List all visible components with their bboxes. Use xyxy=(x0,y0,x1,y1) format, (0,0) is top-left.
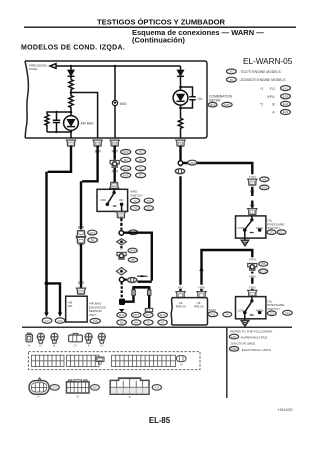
connector face K5 xyxy=(85,333,92,340)
horizontal divider xyxy=(22,326,292,328)
oil pressure switch ZD box xyxy=(236,297,266,319)
resistor R4 xyxy=(178,118,182,138)
node junction dot H xyxy=(179,86,182,89)
svg-text:Y/PU: Y/PU xyxy=(198,285,205,289)
svg-text:HIGH: HIGH xyxy=(256,308,263,312)
wire W1 air bag feed xyxy=(47,146,72,313)
wire W3 R/W xyxy=(113,146,115,182)
connector face L3 xyxy=(110,378,149,394)
arrow down W1 end xyxy=(44,313,48,318)
svg-text:ON: ON xyxy=(119,198,123,202)
SMJ pin box TD xyxy=(248,179,257,185)
connector code B2 xyxy=(88,238,98,243)
svg-text:MODELOS DE COND. IZQDA.: MODELOS DE COND. IZQDA. xyxy=(21,45,125,52)
oval grid row2 xyxy=(121,157,131,162)
arrow down chain end xyxy=(119,309,125,312)
dashed wire xyxy=(120,246,122,250)
svg-text:E28: E28 xyxy=(283,95,289,99)
connector code ZD xyxy=(267,311,276,316)
svg-text:HIGH: HIGH xyxy=(256,226,263,230)
node junction dot C xyxy=(70,91,73,94)
svg-text:JUNCTION (SMJ): JUNCTION (SMJ) xyxy=(230,342,255,346)
svg-text:T3: T3 xyxy=(133,206,137,210)
svg-text:SWITCH: SWITCH xyxy=(130,194,142,198)
connector code E11 xyxy=(277,230,286,235)
svg-text:F36: F36 xyxy=(58,319,63,323)
oval grid row4 xyxy=(121,173,131,178)
svg-text:F12: F12 xyxy=(285,311,290,315)
wire TD chain lower xyxy=(251,187,253,208)
svg-text:B8: B8 xyxy=(120,321,124,325)
contact LOW xyxy=(243,311,247,315)
svg-text:GY: GY xyxy=(37,394,41,398)
diamond connector 1 xyxy=(117,239,127,245)
4WD switch top pin box xyxy=(110,182,119,188)
connector face L1 oval type xyxy=(38,378,42,381)
svg-text:Y/PU: Y/PU xyxy=(249,274,256,278)
svg-text:F55: F55 xyxy=(210,312,215,316)
inline hatched connector oval xyxy=(128,278,137,283)
wire W1 branch xyxy=(47,283,61,312)
meter pin 3 (air bag) xyxy=(66,140,75,146)
contact ON xyxy=(120,203,124,207)
SMJ grid 1 xyxy=(32,355,65,366)
dash between contacts xyxy=(250,232,254,234)
svg-text:B: B xyxy=(88,344,90,348)
contact LOW xyxy=(243,228,247,232)
dashed wire below 4WD switch xyxy=(120,218,122,230)
svg-text:(Continuación): (Continuación) xyxy=(132,35,185,44)
right leg continues xyxy=(148,295,150,308)
svg-text:M77: M77 xyxy=(146,313,152,317)
wire left branch bottom xyxy=(47,131,71,133)
connector code Z16 xyxy=(90,319,100,324)
air bag unit pin box xyxy=(76,288,85,294)
svg-text:TESTIGOS ÓPTICOS Y ZUMBADOR: TESTIGOS ÓPTICOS Y ZUMBADOR xyxy=(97,18,225,27)
svg-text:SWITCH: SWITCH xyxy=(267,307,279,311)
oval grid row3 xyxy=(121,166,131,171)
LED air bag lamp xyxy=(64,116,79,131)
wire to ground xyxy=(244,313,246,321)
svg-text:LOW: LOW xyxy=(238,226,245,230)
LED oil lamp xyxy=(173,90,188,105)
direction arrow xyxy=(137,275,148,277)
node junction dot I xyxy=(179,107,182,110)
oil pressure switch ZD pin box xyxy=(248,290,257,296)
dash between contacts xyxy=(250,314,254,316)
oil pressure switch TD box xyxy=(236,216,266,238)
diode D1 xyxy=(68,70,75,76)
svg-text:M24: M24 xyxy=(210,103,216,107)
svg-text:TD: TD xyxy=(139,166,143,170)
svg-text:ZD: ZD xyxy=(270,312,274,316)
connector code E26 xyxy=(55,318,65,323)
svg-text:M4: M4 xyxy=(262,178,266,182)
capacitor C1 xyxy=(53,112,60,132)
connector face K3 xyxy=(51,333,58,340)
joint box right leg xyxy=(148,290,151,295)
svg-text:15: 15 xyxy=(96,142,100,146)
svg-text:F9: F9 xyxy=(226,313,230,317)
inline connector on ZD chain xyxy=(248,264,257,271)
hatched pin box right leg xyxy=(145,308,152,311)
switch contact top xyxy=(113,189,115,192)
svg-text:M25: M25 xyxy=(224,103,230,107)
vertical divider xyxy=(226,327,228,398)
ECM pin box Y/PU xyxy=(197,292,206,298)
svg-text:F55: F55 xyxy=(154,386,159,390)
connector face K4 xyxy=(69,335,83,342)
SMJ grid 3 xyxy=(112,355,176,366)
junction circle oil xyxy=(178,161,183,166)
svg-text:B: B xyxy=(54,344,56,348)
svg-text:17: 17 xyxy=(79,290,83,294)
thick wire 4WD branch right xyxy=(124,232,152,282)
connector code T3 xyxy=(130,206,139,211)
svg-text:TD: TD xyxy=(147,199,151,203)
wire ZD horizontal xyxy=(202,249,253,291)
svg-text:B/Y: B/Y xyxy=(250,204,255,208)
node junction dot A xyxy=(70,65,73,68)
svg-text:Y/PU: Y/PU xyxy=(249,258,256,262)
capacitor C2 parallel branch xyxy=(181,87,193,108)
svg-text:TD: TD xyxy=(270,230,274,234)
bottom code ovals grid xyxy=(117,312,126,317)
combination meter box outline xyxy=(25,61,207,138)
elec units oval xyxy=(229,347,238,352)
page arrow xyxy=(50,64,59,69)
svg-text:UNIT: UNIT xyxy=(89,313,96,317)
air bag diagnosis sensor unit box xyxy=(66,296,88,322)
node junction dot B xyxy=(114,65,117,68)
joint box left leg xyxy=(132,290,135,295)
wire top bus xyxy=(59,65,181,67)
contact HIGH xyxy=(258,228,262,232)
svg-text:B8: B8 xyxy=(131,258,135,262)
svg-text:B8: B8 xyxy=(93,386,97,390)
wire W2 B/W xyxy=(81,146,98,288)
svg-text:ZD: ZD xyxy=(139,174,143,178)
ground ZD switch xyxy=(241,321,248,327)
wire ON to bottom xyxy=(121,204,123,211)
ECM torn edge xyxy=(170,298,173,325)
svg-text:B/Y: B/Y xyxy=(250,189,255,193)
svg-text:M66: M66 xyxy=(119,313,125,317)
connector face K6 xyxy=(98,333,105,340)
arrow down W1 branch end xyxy=(58,313,62,318)
dash between contacts xyxy=(113,205,117,207)
svg-text:M2: M2 xyxy=(124,158,128,162)
resistor R1 xyxy=(69,80,73,93)
4WD switch box xyxy=(97,189,128,211)
legend oval ZD xyxy=(227,77,237,82)
svg-text:T2: T2 xyxy=(133,199,137,203)
connector code E210c xyxy=(223,312,232,317)
svg-text:H5160D: H5160D xyxy=(278,407,293,412)
svg-text:25: 25 xyxy=(113,142,117,146)
svg-text:B2: B2 xyxy=(91,238,95,242)
diode D2 xyxy=(177,70,184,76)
svg-text:F4: F4 xyxy=(161,321,165,325)
connector face L2 xyxy=(67,382,90,393)
ECM box xyxy=(172,298,208,325)
connector code F12 xyxy=(283,310,293,315)
svg-text:4WD: 4WD xyxy=(120,102,128,106)
svg-text:M33: M33 xyxy=(123,150,129,154)
meter pin 25 (R/W) xyxy=(110,140,119,146)
svg-text:E210: E210 xyxy=(260,270,267,274)
connector code M66 xyxy=(128,248,137,253)
svg-text:Y/PU: Y/PU xyxy=(249,285,256,289)
oil branch wire xyxy=(180,66,182,70)
svg-text:Y/PU: Y/PU xyxy=(249,175,256,179)
inline connector M72 on W2 xyxy=(76,231,85,237)
4WD switch bottom pin box xyxy=(116,212,125,218)
wire left branch top xyxy=(47,112,71,115)
inline connector mid chain xyxy=(117,252,126,259)
svg-text:M60: M60 xyxy=(123,166,129,170)
svg-text:R/W: R/W xyxy=(112,170,118,174)
connector code TD2 xyxy=(144,198,153,203)
diamond connector 2 xyxy=(116,268,126,275)
LED 4WD lamp xyxy=(112,100,117,105)
node junction dot D xyxy=(70,111,73,114)
contact OFF xyxy=(106,203,110,207)
meter pin 15 (B/W) xyxy=(93,140,102,146)
svg-text:EL-WARN-05: EL-WARN-05 xyxy=(243,57,293,66)
node junction dot F xyxy=(55,131,57,133)
4WD lamp wire xyxy=(114,66,116,138)
svg-text:F/J: F/J xyxy=(270,87,275,91)
resistor R2 xyxy=(69,93,73,113)
svg-text:B: B xyxy=(28,344,30,348)
oval grid row1 xyxy=(121,150,131,155)
wire W4 oil main xyxy=(179,146,181,291)
wire ZD chain lower xyxy=(251,272,253,291)
thick link square to U xyxy=(125,296,134,302)
svg-text:F47: F47 xyxy=(45,319,50,323)
svg-text:M79: M79 xyxy=(160,313,166,317)
wire branch to B/W pin xyxy=(71,93,98,139)
switch contact top xyxy=(251,216,253,220)
oval code L1 xyxy=(50,385,59,391)
node junction dot G xyxy=(70,131,72,133)
arrow up ZD wire xyxy=(199,265,203,271)
joint connector black square xyxy=(119,299,125,305)
junction circle 2 xyxy=(119,277,124,282)
svg-text:EL-85: EL-85 xyxy=(149,416,171,425)
small connector face mid strip xyxy=(96,357,104,362)
svg-text:F2: F2 xyxy=(147,321,151,325)
svg-text:B/W: B/W xyxy=(78,281,84,285)
svg-text:M66: M66 xyxy=(130,249,136,253)
svg-text:M53: M53 xyxy=(189,161,195,165)
svg-text:E41: E41 xyxy=(283,86,289,90)
connector face K1 xyxy=(26,335,32,342)
svg-text:B/W: B/W xyxy=(78,243,84,247)
dashed wire below circle2 xyxy=(121,282,123,298)
connector code M53 xyxy=(188,160,197,165)
svg-text:E42: E42 xyxy=(283,102,289,106)
meter pin 29 (oil) xyxy=(176,140,185,146)
splice dot W1 xyxy=(45,281,49,285)
svg-text:,: , xyxy=(218,104,219,108)
node junction dot E xyxy=(55,111,57,113)
svg-text:: TD27Ti ENGINE MODELS: : TD27Ti ENGINE MODELS xyxy=(239,70,282,74)
connector code E210b xyxy=(259,269,268,274)
svg-text:M31: M31 xyxy=(231,335,237,339)
svg-text:ZD: ZD xyxy=(147,206,151,210)
svg-text:*1: *1 xyxy=(260,87,263,91)
oil pressure switch TD pin box xyxy=(248,209,257,215)
wire to ground xyxy=(244,230,246,240)
wire xyxy=(70,66,72,70)
inline connector M2 on W3 xyxy=(110,161,119,168)
ground TD switch xyxy=(241,240,248,246)
svg-text:M33: M33 xyxy=(231,347,237,351)
svg-text:Z16: Z16 xyxy=(52,386,57,390)
svg-text:PU: PU xyxy=(178,285,182,289)
ECM pin box PU xyxy=(176,292,185,298)
switch lever xyxy=(245,302,251,311)
svg-text:PRE.SS: PRE.SS xyxy=(194,304,204,308)
svg-text:M75: M75 xyxy=(133,313,139,317)
junction circle 4WD xyxy=(119,231,124,236)
svg-text:29: 29 xyxy=(179,142,183,146)
svg-text:W/L: W/L xyxy=(68,304,73,308)
oval code L3 xyxy=(152,385,161,391)
oval code L2 xyxy=(91,385,100,391)
svg-text:Z16: Z16 xyxy=(93,319,98,323)
svg-text:GY: GY xyxy=(74,344,78,348)
svg-text:ZD: ZD xyxy=(139,158,143,162)
svg-text:GY: GY xyxy=(39,344,43,348)
smj oval xyxy=(229,334,238,339)
connector code B8 xyxy=(128,258,137,263)
svg-text:E29: E29 xyxy=(283,110,289,114)
dashed SMJ box xyxy=(29,352,201,370)
svg-text:M72: M72 xyxy=(90,231,96,235)
SMJ pill connector xyxy=(176,356,186,362)
svg-text:AIR BAG: AIR BAG xyxy=(81,121,94,125)
svg-text:*2: *2 xyxy=(260,102,263,106)
svg-text:E11: E11 xyxy=(279,230,284,234)
svg-text:TD: TD xyxy=(139,150,143,154)
switch lever xyxy=(245,221,251,229)
svg-text:GY: GY xyxy=(100,344,104,348)
svg-text:PAGE: PAGE xyxy=(29,67,37,71)
connector code F55b xyxy=(208,312,218,317)
svg-text:B/W: B/W xyxy=(78,225,84,229)
svg-text:E59: E59 xyxy=(262,186,267,190)
svg-text:KP/L: KP/L xyxy=(268,95,275,99)
connector code ZD2 xyxy=(144,206,153,211)
svg-text:B9: B9 xyxy=(134,321,138,325)
stub to hatched connector xyxy=(124,279,127,281)
inline hatched connector on W4 xyxy=(175,169,184,174)
svg-text:LOW: LOW xyxy=(238,309,245,313)
wire xyxy=(70,76,72,79)
title underline xyxy=(24,27,296,28)
resistor R3 xyxy=(45,115,49,133)
connector code F55 xyxy=(259,262,268,267)
svg-text:OIL: OIL xyxy=(198,97,203,101)
connector code M14 xyxy=(129,230,138,235)
connector code M4 xyxy=(260,177,269,182)
connector code E59 xyxy=(260,185,269,190)
svg-text:: ZD30DDTi ENGINE MODELS: : ZD30DDTi ENGINE MODELS xyxy=(239,78,287,82)
switch lever 4WD xyxy=(108,194,114,203)
svg-text:: ELECTRICAL UNITS: : ELECTRICAL UNITS xyxy=(240,348,271,352)
svg-text:REFER TO THE FOLLOWING.: REFER TO THE FOLLOWING. xyxy=(230,330,273,334)
connector code T2 xyxy=(130,198,139,203)
svg-text:F55: F55 xyxy=(261,262,266,266)
connector code E25 xyxy=(42,318,52,323)
connector code M72 xyxy=(88,230,97,235)
contact HIGH xyxy=(258,311,262,315)
svg-text:M35: M35 xyxy=(123,174,129,178)
legend oval TD xyxy=(227,69,237,74)
svg-text:B: B xyxy=(129,395,131,399)
svg-text:SWITCH: SWITCH xyxy=(267,226,279,230)
torn left edge xyxy=(25,61,28,138)
SMJ grid 2 xyxy=(67,355,100,366)
wire W4 branch to TD switch xyxy=(183,163,253,174)
connector code E210 xyxy=(267,230,276,235)
svg-text:OFF: OFF xyxy=(100,198,106,202)
svg-text:PRE.SS: PRE.SS xyxy=(176,304,186,308)
connector face K2 xyxy=(37,333,44,340)
svg-text:-SUPER MULTIPLE: -SUPER MULTIPLE xyxy=(240,335,267,339)
U top bar xyxy=(134,286,150,290)
switch contact top xyxy=(251,297,253,301)
